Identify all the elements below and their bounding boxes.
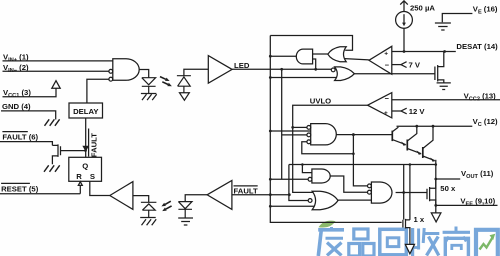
svg-text:VOUT (11): VOUT (11) — [461, 169, 494, 180]
wire top feedback — [270, 36, 352, 51]
pin VEE (9,10) label — [460, 196, 495, 207]
net label LED — [234, 61, 250, 70]
ground D3 earth — [178, 218, 193, 225]
node FAULT junction — [84, 149, 87, 152]
wire VE — [442, 14, 472, 23]
node U14out-gate — [402, 191, 405, 194]
svg-text:250 µA: 250 µA — [410, 3, 435, 12]
pin GND (4) label — [2, 102, 31, 111]
wire U8 minus input — [392, 64, 401, 66]
junction dots — [269, 55, 437, 208]
svg-text:VIN− (2): VIN− (2) — [3, 63, 29, 74]
ground VE earth — [435, 23, 451, 30]
AND gate U12 middle — [312, 169, 330, 183]
svg-text:50 x: 50 x — [440, 184, 456, 193]
wire UVLO — [293, 105, 368, 192]
wire FAULT return — [232, 194, 289, 196]
arrow R input — [78, 182, 82, 186]
node U11out-fb — [352, 133, 355, 136]
node FAULT-fb — [288, 193, 291, 196]
wire feedback vertical — [353, 135, 367, 186]
node rail-FAULT — [269, 193, 272, 196]
net label UVLO — [310, 96, 331, 105]
bubble U11 in2 — [307, 133, 311, 137]
node VEE — [434, 204, 437, 207]
node rail-U12in2 — [269, 178, 272, 181]
wire DELAY to FF — [85, 118, 87, 147]
wire gate feedback vertical — [403, 165, 405, 220]
net label FAULT — [234, 185, 258, 187]
wire U13 out — [338, 199, 371, 201]
node fb-U11in4 — [352, 152, 355, 155]
char pin — [349, 229, 374, 256]
watermark logo group — [318, 221, 498, 256]
wire Q1 gate — [61, 150, 86, 152]
svg-text:1 x: 1 x — [414, 215, 425, 224]
node U11out-base — [352, 133, 355, 136]
svg-text:VIN+ (1): VIN+ (1) — [3, 53, 29, 64]
ref arrow 7V — [401, 62, 407, 68]
arrow on DELAY wire — [83, 146, 88, 150]
wire U12 out — [330, 176, 367, 192]
wire emitter vertical — [435, 160, 437, 206]
bubble U9 in1 — [331, 68, 335, 72]
light arrows channel1 — [160, 77, 168, 85]
pin VIN+ (1) label — [3, 53, 29, 64]
wire DESAT pin — [392, 51, 456, 53]
ground D2 hatch — [140, 218, 156, 226]
LED D1 — [142, 78, 156, 94]
wire VIN+ — [3, 60, 113, 62]
char hui — [380, 229, 407, 255]
wire U9 out to Q3 gate — [354, 73, 435, 75]
wire VCC1 — [3, 88, 57, 97]
wire U6 out — [270, 55, 296, 57]
node VC-Q5 — [415, 125, 418, 128]
bubble U11 in1 — [307, 126, 311, 130]
wire VEE — [436, 204, 498, 206]
wire D4 to amp U5 — [184, 69, 208, 75]
wire U11 out to Q4 base — [336, 134, 392, 136]
pin VCC2 (13) label — [464, 91, 497, 102]
AND gate U11 top — [311, 124, 337, 145]
wire GND — [1, 111, 56, 120]
wire U9 in2 — [270, 77, 336, 79]
power arrow VCC1 — [52, 81, 60, 89]
wire Q7 drain — [409, 165, 411, 220]
wire U6 in2 — [313, 59, 316, 69]
ground Q3 earth — [437, 83, 451, 90]
net arrow VEE — [431, 205, 441, 222]
node VC-Q8 — [432, 125, 435, 128]
transistor Q8 npn — [422, 147, 424, 158]
svg-text:+: + — [384, 50, 388, 57]
wire VCC2 to UVLO comparator — [392, 99, 500, 101]
OR gate U13 bottom — [312, 191, 338, 209]
AND gate U14 output — [371, 182, 392, 203]
comparator U8 DESAT — [369, 46, 392, 74]
pin DESAT (14) label — [456, 42, 498, 51]
wire U1 in3 to DELAY — [87, 79, 109, 103]
svg-text:DELAY: DELAY — [73, 107, 98, 116]
node LED-U6tap — [314, 68, 317, 71]
net arrow VEE2 — [405, 244, 414, 253]
svg-text:−: − — [385, 94, 390, 103]
wire U1 out to LED D1 — [139, 70, 149, 78]
wire feedback to OR — [289, 165, 308, 201]
logo square with arrow — [476, 230, 498, 256]
node rail-U6out — [269, 55, 272, 58]
wire U11 in2 plain — [270, 130, 310, 132]
transistor Q4 npn — [391, 131, 393, 142]
svg-text:FAULT: FAULT — [90, 133, 99, 157]
svg-text:7 V: 7 V — [409, 60, 421, 69]
pin FAULT (6) label — [2, 131, 27, 133]
svg-text:UVLO: UVLO — [310, 96, 331, 105]
ref arrow 12V — [401, 108, 407, 114]
svg-text:RESET (5): RESET (5) — [1, 184, 39, 193]
bubble U13 in2 — [308, 199, 312, 203]
svg-text:R: R — [76, 172, 82, 181]
transistor Q1 FAULT mosfet — [52, 144, 60, 164]
svg-text:LED: LED — [234, 61, 250, 70]
flip-flop U2 box — [69, 157, 102, 181]
wire U13 in3 — [270, 205, 314, 207]
amp U3 fault receiver — [110, 182, 133, 210]
wire VC rail — [397, 125, 473, 127]
wire U11 in1 from UVLO — [293, 126, 307, 128]
char shang — [443, 227, 470, 256]
svg-text:VE (16): VE (16) — [473, 5, 498, 16]
svg-text:−: − — [385, 61, 390, 70]
VE arrow below D4 — [180, 93, 190, 100]
svg-text:12 V: 12 V — [409, 107, 426, 116]
photodiode D2 — [141, 202, 157, 217]
node rail-U11in2 — [269, 130, 272, 133]
wire VIN- — [3, 70, 109, 72]
node rail-U13in3 — [269, 205, 272, 208]
wire U3 input from photodiode D2 — [133, 196, 149, 203]
ground GND1 hatch — [45, 119, 60, 126]
OR gate U7 mirrored — [328, 47, 346, 62]
bubble U14 in2 — [368, 190, 372, 194]
node drain-fbline — [409, 163, 412, 166]
pin VOUT (11) label — [461, 169, 494, 180]
bubble U14 in1 — [368, 184, 372, 188]
transistor Q7 1x mosfet — [403, 219, 410, 244]
wire U11 in3 from LED line — [282, 69, 307, 179]
node fb-U12in1 — [301, 163, 304, 166]
node fbline-emitter — [435, 163, 438, 166]
svg-text:VC (12): VC (12) — [473, 117, 498, 128]
char shou — [410, 228, 439, 256]
transistor Q3 desat mosfet — [435, 52, 444, 83]
wire R input — [79, 185, 81, 193]
node I1-DESAT — [403, 50, 406, 53]
wire U11 in4 feedback — [302, 142, 354, 154]
wire U4 out to LED D3 — [185, 195, 207, 202]
bubble U1 in2 — [109, 69, 113, 73]
wire S output — [90, 181, 110, 195]
ground Q1 hatch — [44, 165, 60, 172]
wire arrow to FF box — [85, 150, 87, 157]
LED D3 — [178, 202, 192, 218]
wire VOUT — [436, 178, 460, 180]
comparator U10 UVLO — [368, 93, 392, 118]
wire U14 out to 50x gate — [396, 192, 427, 194]
AND gate U6 mirrored — [296, 49, 312, 64]
node rail-U9in — [269, 76, 272, 79]
svg-text:FAULT: FAULT — [234, 186, 258, 195]
AND gate U1 input — [113, 59, 139, 81]
net label FAULT vertical — [88, 129, 90, 157]
pin VC (12) label — [473, 117, 498, 128]
wire U12 in2 from rail — [270, 178, 308, 180]
svg-text:GND (4): GND (4) — [2, 102, 31, 111]
amp U5 LED driver — [208, 56, 232, 84]
wire U6 in1 — [313, 53, 328, 55]
DELAY box — [69, 103, 103, 118]
pin VIN- (2) label — [3, 63, 29, 74]
bubble U1 in3 — [109, 77, 113, 81]
transistor Q5 npn — [406, 140, 408, 151]
wire U7 in2 to comparator — [345, 59, 369, 60]
svg-text:+: + — [384, 110, 388, 117]
svg-text:DESAT (14): DESAT (14) — [456, 42, 498, 51]
pin VE (16) label — [473, 5, 498, 16]
wire U12 in1 — [302, 165, 312, 173]
bubble U11 in3 — [307, 140, 311, 144]
wire RESET — [0, 193, 80, 195]
wire LED signal — [232, 68, 331, 70]
ground D1 hatch — [141, 94, 157, 101]
light arrows channel2 — [165, 201, 172, 209]
amp U4 fault driver — [207, 180, 232, 209]
wire main rail left — [270, 36, 401, 223]
node LED-branch — [280, 68, 283, 71]
bubble U12 in2 — [308, 177, 312, 181]
svg-text:Q: Q — [82, 161, 88, 170]
leaf green — [319, 221, 336, 228]
node UVLO-U11in1 — [291, 126, 294, 129]
pin RESET (5) label — [1, 182, 30, 184]
wire U10 plus input — [392, 110, 401, 112]
OR gate U9 desat driver — [335, 67, 355, 81]
photodiode D4 — [177, 76, 191, 93]
node DESAT-drain — [443, 50, 446, 53]
svg-text:S: S — [90, 172, 95, 181]
current source I1 250uA — [400, 1, 408, 12]
pin VCC1 (3) label — [3, 88, 31, 99]
svg-text:VCC2 (13): VCC2 (13) — [464, 91, 497, 102]
transistor Q6 50x mosfet — [427, 179, 436, 205]
wire output feedback line — [289, 164, 436, 166]
char fei — [318, 227, 344, 256]
svg-text:FAULT (6): FAULT (6) — [2, 133, 38, 142]
node VOUT — [434, 178, 437, 181]
wire FAULT pin — [0, 142, 52, 146]
